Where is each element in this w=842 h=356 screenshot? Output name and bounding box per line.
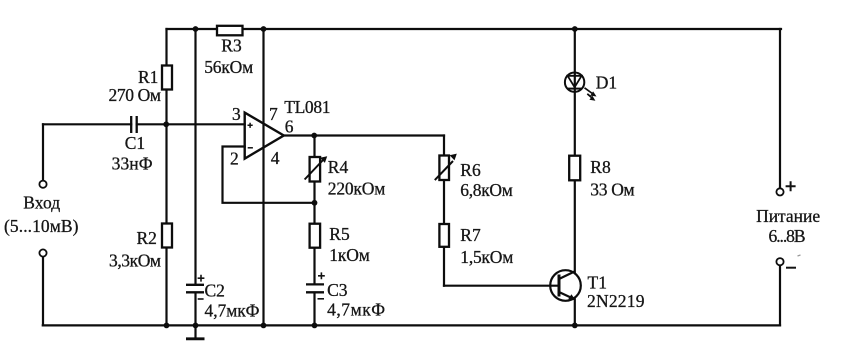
svg-text:R7: R7	[460, 225, 481, 245]
svg-text:56кОм: 56кОм	[204, 57, 253, 77]
svg-text:C1: C1	[125, 133, 145, 153]
svg-text:1,5кОм: 1,5кОм	[460, 247, 513, 267]
svg-text:4: 4	[271, 148, 280, 168]
svg-text:(5...10мВ): (5...10мВ)	[4, 216, 79, 236]
svg-text:6...8В: 6...8В	[769, 226, 806, 246]
svg-text:220кОм: 220кОм	[328, 179, 386, 199]
svg-text:6: 6	[285, 116, 294, 136]
svg-text:2N2219: 2N2219	[587, 291, 645, 311]
svg-text:T1: T1	[588, 273, 607, 293]
svg-text:1кОм: 1кОм	[329, 245, 370, 265]
svg-text:R5: R5	[329, 224, 350, 244]
svg-text:D1: D1	[596, 73, 617, 93]
svg-text:Вход: Вход	[23, 193, 60, 213]
svg-text:R6: R6	[460, 160, 481, 180]
svg-text:TL081: TL081	[284, 97, 330, 117]
svg-text:C2: C2	[205, 281, 225, 301]
svg-text:33нФ: 33нФ	[112, 154, 153, 174]
svg-text:R1: R1	[138, 67, 158, 87]
svg-text:4,7мкФ: 4,7мкФ	[205, 301, 260, 321]
svg-text:Питание: Питание	[756, 206, 820, 226]
svg-text:3: 3	[232, 104, 241, 124]
svg-text:2: 2	[230, 149, 239, 169]
svg-text:R2: R2	[137, 228, 157, 248]
svg-text:C3: C3	[327, 280, 348, 300]
svg-text:3,3кОм: 3,3кОм	[109, 251, 161, 271]
svg-text:4,7мкФ: 4,7мкФ	[327, 300, 385, 320]
svg-text:R3: R3	[221, 36, 242, 56]
svg-text:33 Ом: 33 Ом	[590, 180, 634, 200]
svg-text:R4: R4	[328, 157, 349, 177]
svg-text:R8: R8	[590, 157, 611, 177]
svg-text:6,8кОм: 6,8кОм	[460, 180, 513, 200]
svg-text:270 Ом: 270 Ом	[109, 85, 162, 105]
svg-text:7: 7	[269, 104, 278, 124]
